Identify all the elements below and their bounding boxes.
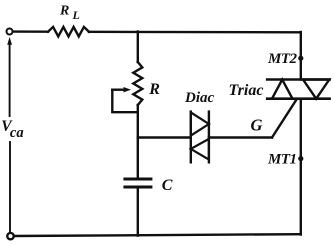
wire MT1 lead (triac down to bottom rail) xyxy=(300,99,302,235)
diac bottom triangle xyxy=(191,139,209,160)
label G xyxy=(251,116,263,135)
label Vca xyxy=(1,118,23,141)
label Triac xyxy=(229,82,264,99)
wire MT2 lead (top rail corner down to triac) xyxy=(300,32,302,80)
label Diac xyxy=(184,90,215,106)
terminal bottom-left xyxy=(7,233,13,239)
svg-text:R: R xyxy=(148,81,160,98)
label MT1 xyxy=(267,151,297,167)
label RL xyxy=(59,4,80,23)
gate diagonal wire to triac xyxy=(272,100,297,138)
svg-text:G: G xyxy=(251,116,263,135)
wire capacitor to bottom rail xyxy=(137,187,139,236)
source arrow (up) on left wire xyxy=(7,37,12,116)
diac left bar xyxy=(190,112,192,163)
wire top rail right segment xyxy=(89,31,301,34)
wire top rail left segment xyxy=(13,30,48,33)
potentiometer R zigzag xyxy=(133,62,142,105)
label C xyxy=(162,177,173,194)
diac right bar xyxy=(208,112,210,163)
wire diac to gate corner xyxy=(209,136,272,138)
terminal top-left xyxy=(7,29,13,35)
svg-text:C: C xyxy=(162,177,173,194)
svg-text:R: R xyxy=(59,4,69,19)
wire potentiometer to capacitor xyxy=(137,105,139,179)
diac top triangle xyxy=(191,112,209,135)
triac left triangle (points up) xyxy=(272,80,293,99)
potentiometer wiper arrow xyxy=(112,87,131,92)
wiper return wire (left and bottom of loop) xyxy=(112,90,138,113)
node MT2 junction dot xyxy=(298,56,303,61)
node: junction wire to diac xyxy=(138,136,191,138)
wire bottom rail xyxy=(14,234,301,236)
resistor RL zigzag xyxy=(48,27,89,37)
wire left below label to bottom terminal xyxy=(9,142,11,232)
triac bottom bar xyxy=(267,97,329,100)
svg-text:L: L xyxy=(72,8,80,22)
svg-text:MT2: MT2 xyxy=(267,51,298,67)
svg-text:Triac: Triac xyxy=(229,82,264,99)
capacitor C top plate xyxy=(125,178,151,181)
node MT1 junction dot xyxy=(298,156,303,161)
triac right triangle (points down) xyxy=(303,80,329,99)
svg-text:ca: ca xyxy=(10,125,24,141)
wire from top rail down to potentiometer xyxy=(137,32,139,63)
svg-text:MT1: MT1 xyxy=(267,151,297,167)
label R (potentiometer) xyxy=(148,81,160,98)
triac top bar xyxy=(267,78,329,81)
capacitor C bottom plate xyxy=(125,186,151,189)
label MT2 xyxy=(267,51,298,67)
svg-text:Diac: Diac xyxy=(184,90,215,106)
